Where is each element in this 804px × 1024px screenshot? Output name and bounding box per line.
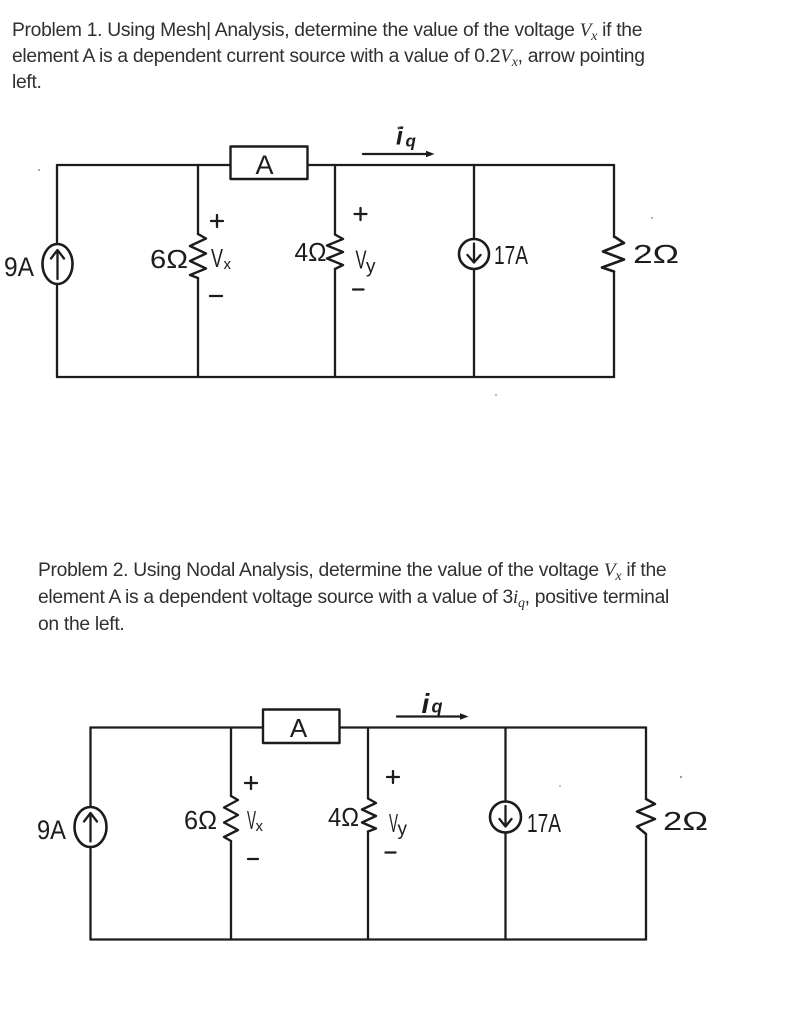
svg-text:i: i	[396, 123, 404, 151]
svg-text:4Ω: 4Ω	[328, 802, 359, 832]
svg-text:2Ω: 2Ω	[633, 239, 679, 269]
svg-text:y: y	[366, 257, 376, 278]
svg-text:A: A	[255, 150, 273, 180]
svg-text:y: y	[398, 819, 408, 840]
svg-text:x: x	[224, 256, 232, 273]
svg-text:A: A	[290, 713, 308, 743]
svg-text:q: q	[432, 697, 443, 717]
svg-text:6Ω: 6Ω	[184, 805, 217, 835]
svg-text:2Ω: 2Ω	[663, 806, 708, 836]
svg-text:x: x	[256, 818, 264, 835]
svg-text:17A: 17A	[494, 240, 528, 270]
svg-text:4Ω: 4Ω	[295, 237, 327, 267]
svg-text:9A: 9A	[4, 252, 34, 282]
svg-text:i: i	[422, 688, 431, 719]
svg-text:V: V	[211, 243, 223, 273]
svg-text:9A: 9A	[37, 815, 66, 845]
svg-text:17A: 17A	[527, 808, 561, 838]
svg-text:6Ω: 6Ω	[150, 244, 188, 274]
svg-text:q: q	[406, 132, 417, 151]
